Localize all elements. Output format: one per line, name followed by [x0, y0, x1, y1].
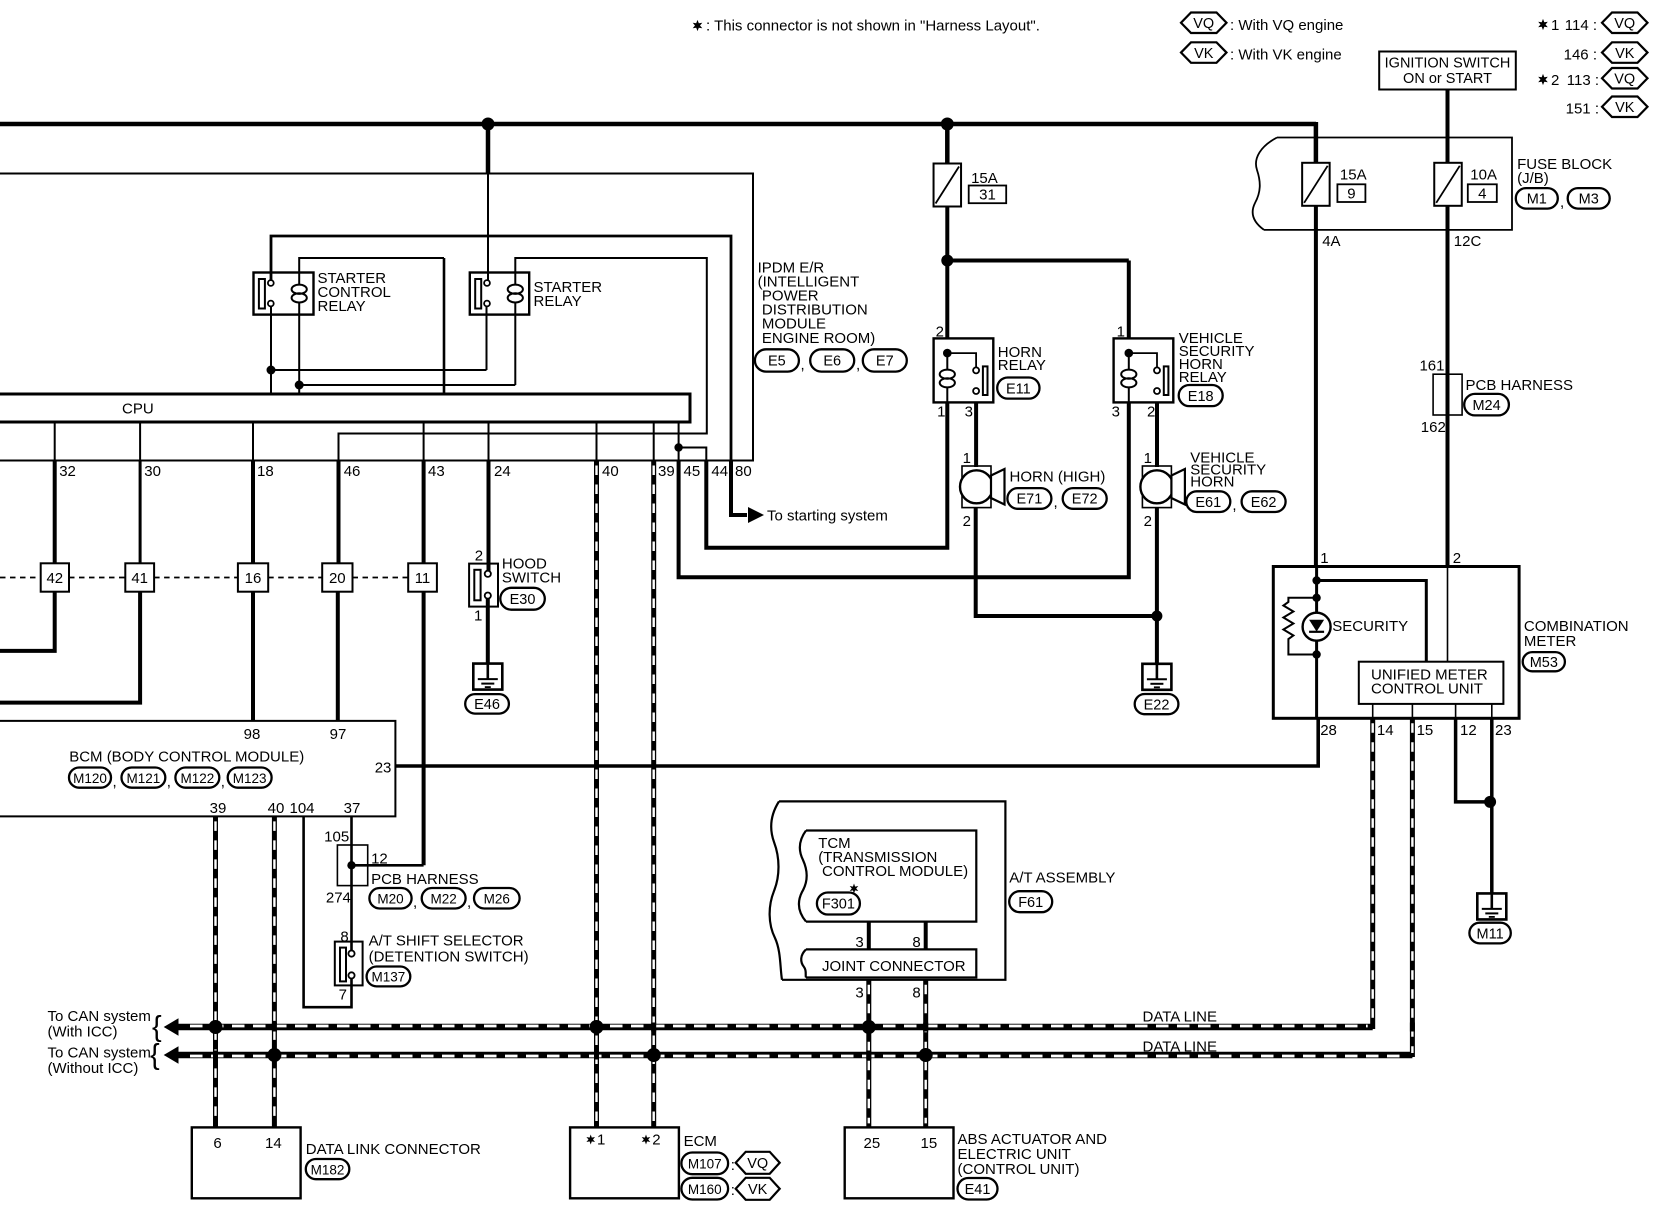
- node: security lamp top junction: [1312, 594, 1320, 602]
- VK hexagon: [736, 1178, 780, 1200]
- wire: pin 45 to veh sec horn relay pin 3: [679, 403, 1129, 578]
- svg-text:46: 46: [344, 463, 361, 480]
- wire: battery bus: [0, 122, 1316, 127]
- svg-text:METER: METER: [1524, 633, 1577, 650]
- svg-text:VQ: VQ: [747, 1156, 768, 1172]
- svg-text:M160: M160: [688, 1182, 722, 1197]
- svg-text:6: 6: [213, 1135, 221, 1152]
- ECM pin *1: [586, 1135, 595, 1145]
- svg-text:: With VK engine: : With VK engine: [1230, 47, 1342, 64]
- wire: fuse 31 to horn relay pin 2: [945, 207, 949, 339]
- connector M20: [369, 888, 411, 909]
- svg-text:42: 42: [46, 570, 63, 587]
- svg-text:1: 1: [1320, 550, 1328, 567]
- svg-text:(With ICC): (With ICC): [48, 1024, 118, 1041]
- svg-text:JOINT CONNECTOR: JOINT CONNECTOR: [822, 958, 966, 975]
- BCM box: [0, 721, 395, 817]
- connector M26: [474, 888, 520, 909]
- svg-text:105: 105: [324, 829, 349, 846]
- wire: PCB harness 12 to terminal 11: [352, 864, 424, 867]
- svg-text:{: {: [150, 1039, 160, 1071]
- svg-text:3: 3: [965, 403, 973, 420]
- svg-text:VK: VK: [1615, 100, 1635, 116]
- svg-text:39: 39: [658, 463, 675, 480]
- node: meter ground junction: [1484, 796, 1496, 808]
- svg-text:E72: E72: [1072, 492, 1098, 508]
- node: bus junction A: [482, 118, 495, 131]
- svg-text:F61: F61: [1018, 895, 1043, 911]
- note *2 113:VQ: [1538, 74, 1548, 85]
- svg-text:15: 15: [921, 1135, 938, 1152]
- connector E41: [958, 1178, 998, 1200]
- svg-text:BCM (BODY CONTROL MODULE): BCM (BODY CONTROL MODULE): [69, 748, 304, 765]
- wire: VSH relay pin 2 to security horn: [1155, 403, 1159, 468]
- node: security lamp bottom junction: [1312, 650, 1320, 658]
- svg-text:SECURITY: SECURITY: [1332, 618, 1408, 635]
- svg-text:,: ,: [1232, 497, 1236, 514]
- connector M22: [422, 888, 466, 909]
- svg-text:15A: 15A: [1340, 166, 1367, 183]
- svg-text:M3: M3: [1579, 192, 1599, 208]
- svg-text:161: 161: [1419, 357, 1444, 374]
- svg-text:HORN (HIGH): HORN (HIGH): [1010, 469, 1106, 486]
- svg-text:M1: M1: [1527, 192, 1547, 208]
- svg-text:DATA LINK CONNECTOR: DATA LINK CONNECTOR: [306, 1141, 481, 1158]
- svg-text:1: 1: [963, 450, 971, 467]
- wire: meter pin 28 to BCM 23 wire: [1316, 718, 1320, 767]
- wire: pin 39 CAN-L to ECM *2: [651, 461, 656, 1128]
- svg-text:VK: VK: [1194, 46, 1214, 62]
- wire: starter control relay coil top to CPU: [299, 258, 444, 273]
- ground E46: [473, 664, 502, 690]
- svg-text:12: 12: [1460, 722, 1477, 739]
- svg-text:RELAY: RELAY: [318, 298, 366, 315]
- wire: CPU pin stub 40: [596, 422, 598, 461]
- UMCU pin stubs: [1372, 704, 1374, 718]
- svg-text:RELAY: RELAY: [534, 293, 582, 310]
- svg-text:E71: E71: [1016, 492, 1042, 508]
- node: CAN2 x IPDM39: [647, 1048, 661, 1062]
- svg-text:,: ,: [1054, 494, 1058, 511]
- wire: starter relay coil to IPDM pin 46 route: [339, 258, 707, 461]
- A/T shift selector detention switch M137: [335, 942, 363, 986]
- svg-text:,: ,: [167, 774, 171, 791]
- connector M53: [1523, 652, 1565, 671]
- svg-text:M121: M121: [127, 771, 161, 786]
- legend VK symbol: [1181, 42, 1227, 63]
- svg-text:162: 162: [1421, 419, 1446, 436]
- wire: CPU pin stub 32: [54, 422, 56, 461]
- fuse 15A/31: [934, 164, 962, 207]
- svg-text::: :: [731, 1157, 735, 1174]
- svg-text:IGNITION SWITCH: IGNITION SWITCH: [1385, 56, 1511, 72]
- connector M121: [122, 768, 166, 788]
- VQ hexagon: [736, 1152, 780, 1174]
- wire: starter control relay contact to pin 80 route: [271, 236, 731, 461]
- svg-text:VQ: VQ: [1193, 16, 1214, 32]
- svg-text:2: 2: [1147, 403, 1155, 420]
- svg-text:31: 31: [979, 187, 996, 204]
- svg-text:M120: M120: [73, 771, 107, 786]
- svg-text:VK: VK: [748, 1182, 768, 1198]
- svg-text:DATA LINE: DATA LINE: [1143, 1009, 1217, 1026]
- svg-text:2: 2: [1551, 72, 1559, 89]
- wire: horn feed to veh sec horn relay pin 1: [945, 259, 1129, 263]
- svg-text:1: 1: [474, 608, 482, 625]
- svg-text:M137: M137: [372, 970, 406, 985]
- connector M1: [1516, 188, 1558, 209]
- svg-text:A/T SHIFT SELECTOR: A/T SHIFT SELECTOR: [369, 933, 524, 950]
- connector E72: [1063, 488, 1107, 509]
- node: SCR coil junction: [295, 381, 304, 390]
- svg-text:E18: E18: [1188, 389, 1214, 405]
- fuse 10A/4: [1434, 163, 1462, 206]
- svg-text:2: 2: [963, 513, 971, 530]
- svg-text:12C: 12C: [1454, 233, 1482, 250]
- svg-text:274: 274: [326, 889, 351, 906]
- note: connector not shown in Harness Layout: [693, 20, 703, 31]
- svg-text:14: 14: [265, 1135, 282, 1152]
- svg-text:37: 37: [344, 800, 361, 817]
- connector M122: [175, 768, 219, 788]
- data link connector box M182: [192, 1127, 301, 1198]
- connector E62: [1242, 491, 1286, 512]
- svg-text:2: 2: [1144, 513, 1152, 530]
- connector M182: [306, 1159, 350, 1179]
- ground E22: [1142, 664, 1171, 690]
- svg-text:16: 16: [245, 570, 262, 587]
- svg-text:151 :: 151 :: [1566, 101, 1599, 118]
- wire: pin 44 to horn relay pin 1: [706, 403, 947, 548]
- wire: pin 18 drop: [251, 461, 255, 564]
- svg-text:114 :: 114 :: [1565, 17, 1597, 34]
- svg-text:VK: VK: [1615, 46, 1635, 62]
- wire: terminal 42 exit left: [0, 592, 55, 651]
- svg-text:23: 23: [375, 760, 392, 777]
- relay K2 starter relay: [470, 273, 529, 315]
- svg-text:E22: E22: [1144, 697, 1170, 713]
- fuse 15A/9: [1302, 163, 1330, 206]
- wire crossing restore: [272, 1023, 277, 1032]
- svg-text:1: 1: [1551, 17, 1559, 34]
- node: pin45/44 junction: [674, 443, 682, 451]
- node: SCR contact junction: [267, 366, 276, 375]
- PCB harness connector box: [337, 845, 367, 886]
- svg-text:To CAN system: To CAN system: [48, 1045, 151, 1062]
- svg-text:3: 3: [1112, 403, 1120, 420]
- security indicator LED: [1303, 613, 1331, 641]
- svg-text:3: 3: [855, 985, 863, 1002]
- node: CAN1 x IPDM40: [590, 1020, 604, 1034]
- connector E6: [810, 349, 854, 371]
- relay K1 starter control relay: [254, 273, 314, 315]
- svg-text:(Without ICC): (Without ICC): [48, 1060, 139, 1077]
- connector M120: [69, 768, 111, 788]
- connector M3: [1568, 188, 1610, 209]
- wire: BCM 37 to PCB harness 105: [350, 816, 353, 950]
- svg-text:,: ,: [113, 774, 117, 791]
- svg-text:24: 24: [494, 463, 511, 480]
- combination meter box M53: [1273, 567, 1519, 719]
- svg-text:CPU: CPU: [122, 401, 154, 418]
- svg-text:E41: E41: [965, 1182, 991, 1198]
- wire: terminal 41 exit left: [0, 592, 140, 703]
- svg-text:41: 41: [131, 570, 148, 587]
- svg-text:30: 30: [144, 463, 161, 480]
- svg-text:M11: M11: [1477, 926, 1504, 942]
- CAN line 2 (Without ICC): [164, 1046, 179, 1064]
- connector F301: [817, 893, 860, 915]
- relay K4 vehicle security horn relay E18: [1114, 338, 1174, 402]
- wire: meter pin 23 to ground M11: [1490, 718, 1494, 893]
- svg-text:43: 43: [428, 463, 445, 480]
- svg-text:12: 12: [371, 851, 388, 868]
- wire: horn relay pin 3 to horn: [974, 403, 978, 468]
- svg-text:9: 9: [1347, 186, 1355, 203]
- svg-text:104: 104: [289, 800, 314, 817]
- svg-text:45: 45: [684, 463, 701, 480]
- node: CAN1 x BCM39: [209, 1020, 223, 1034]
- wire: BCM 104 to detention switch 7: [304, 816, 352, 1007]
- wire: hood switch to ground: [486, 599, 490, 664]
- svg-text:ENGINE ROOM): ENGINE ROOM): [762, 330, 875, 347]
- legend VQ symbol: [1181, 13, 1227, 34]
- svg-text:HORN: HORN: [1190, 474, 1234, 491]
- svg-text:1: 1: [937, 403, 945, 420]
- terminal box 20: [322, 563, 352, 591]
- svg-text:To CAN system: To CAN system: [48, 1008, 151, 1025]
- wire: bus drop to starter relay: [486, 121, 491, 174]
- node: meter junction 1: [1312, 576, 1320, 584]
- wire: CPU pin stub 30: [139, 422, 141, 461]
- svg-text:2: 2: [652, 1132, 660, 1149]
- svg-text:M123: M123: [233, 771, 267, 786]
- wire: BCM 23 to meter pin 28: [395, 718, 1318, 766]
- connector E5: [755, 349, 799, 371]
- svg-text:14: 14: [1377, 722, 1394, 739]
- CPU box: [0, 394, 690, 422]
- connector E71: [1007, 488, 1051, 509]
- svg-text:(CONTROL UNIT): (CONTROL UNIT): [958, 1161, 1080, 1178]
- resistor R1: [1283, 598, 1316, 655]
- node: CAN1 x TCM3: [862, 1020, 876, 1034]
- svg-text:98: 98: [244, 726, 261, 743]
- node: horn ground junction: [1151, 611, 1162, 622]
- svg-text:M107: M107: [688, 1157, 722, 1172]
- wire: pin 80 to starting system: [731, 461, 747, 516]
- svg-text:20: 20: [329, 570, 346, 587]
- svg-text:M122: M122: [180, 771, 214, 786]
- svg-text:4: 4: [1478, 186, 1486, 203]
- wire: BCM 40 CAN to data link connector 14: [272, 816, 277, 1127]
- svg-text:M24: M24: [1472, 398, 1500, 414]
- wire: TCM pin 3 to joint connector: [867, 922, 871, 950]
- svg-text:23: 23: [1495, 722, 1512, 739]
- node: CAN2 x BCM40: [267, 1048, 281, 1062]
- terminal box 16: [238, 563, 268, 591]
- svg-text:F301: F301: [822, 897, 855, 913]
- svg-text:DATA LINE: DATA LINE: [1143, 1039, 1217, 1056]
- svg-text:VQ: VQ: [1614, 16, 1635, 32]
- connector E61: [1186, 491, 1230, 512]
- svg-text:(J/B): (J/B): [1517, 170, 1549, 187]
- wire: pin 30 drop: [139, 461, 142, 564]
- svg-text:80: 80: [735, 463, 752, 480]
- wire: terminal 20 to BCM 97: [336, 592, 340, 721]
- ground M11: [1477, 893, 1506, 919]
- joint connector box: [806, 949, 976, 977]
- connector M107: [681, 1153, 728, 1175]
- svg-text:E61: E61: [1195, 495, 1221, 511]
- svg-text:M26: M26: [484, 891, 510, 906]
- svg-text:E5: E5: [768, 354, 786, 370]
- TCM box F301: [806, 831, 976, 922]
- svg-text:,: ,: [1560, 194, 1564, 211]
- wire: CAN line 1 riser to meter pin 14: [1370, 718, 1375, 1029]
- svg-text:11: 11: [415, 570, 431, 587]
- wire: ignition switch to fuse 4: [1446, 90, 1450, 164]
- svg-text:E11: E11: [1006, 381, 1031, 397]
- wire: branch to pin 44: [679, 448, 707, 461]
- svg-text:(DETENTION SWITCH): (DETENTION SWITCH): [369, 949, 529, 966]
- wire: CPU pin stub 45: [678, 422, 680, 461]
- svg-text:44: 44: [711, 463, 728, 480]
- wire: CPU pin stub 24: [488, 422, 490, 461]
- wire: horn pin 2 to ground junction: [976, 508, 1157, 616]
- svg-text:,: ,: [221, 774, 225, 791]
- svg-text:SWITCH: SWITCH: [502, 569, 561, 586]
- svg-text:,: ,: [856, 357, 860, 374]
- A/T assembly box F61: [779, 801, 1005, 979]
- svg-text:M53: M53: [1530, 655, 1558, 671]
- svg-text:146 :: 146 :: [1564, 47, 1597, 64]
- wire: security horn to ground E22: [1155, 508, 1159, 664]
- svg-text:PCB HARNESS: PCB HARNESS: [371, 871, 479, 888]
- ECM box: [570, 1127, 679, 1198]
- svg-text:40: 40: [268, 800, 285, 817]
- svg-text:E62: E62: [1251, 495, 1277, 511]
- relay K3 horn relay E11: [934, 338, 994, 402]
- node: CAN2 x TCM8: [919, 1048, 933, 1062]
- horn (high) E71/E72: [962, 466, 991, 508]
- svg-text:1: 1: [1144, 450, 1152, 467]
- ABS actuator box E41: [845, 1127, 954, 1198]
- connector E11: [997, 378, 1039, 399]
- wire: to unified meter control unit: [1317, 581, 1427, 662]
- wire: pin 43 drop: [422, 461, 426, 564]
- wire: terminal 11 to PCB harness 12: [422, 592, 426, 866]
- svg-text:2: 2: [1453, 550, 1461, 567]
- svg-text:ON or START: ON or START: [1403, 71, 1492, 87]
- svg-text:18: 18: [257, 463, 274, 480]
- svg-text:E7: E7: [876, 354, 894, 370]
- terminal box 11: [408, 563, 437, 591]
- wire: pin 32 drop: [53, 461, 57, 564]
- svg-text:40: 40: [602, 463, 619, 480]
- wire: BCM 39 CAN to data link connector 6: [213, 816, 218, 1127]
- svg-text:To starting system: To starting system: [767, 507, 888, 524]
- svg-text:RELAY: RELAY: [998, 357, 1046, 374]
- ignition switch ON or START: [1379, 52, 1516, 90]
- svg-text::: :: [731, 1182, 735, 1199]
- wire: joint connector 3 to CAN1 and ABS 25: [866, 980, 871, 1128]
- ECM pin *2: [642, 1135, 651, 1145]
- svg-text:2: 2: [475, 548, 483, 565]
- svg-text:PCB HARNESS: PCB HARNESS: [1466, 377, 1574, 394]
- svg-text:CONTROL MODULE): CONTROL MODULE): [822, 863, 968, 880]
- svg-text:M22: M22: [431, 891, 457, 906]
- IPDM E/R box: [0, 174, 753, 461]
- connector M123: [228, 768, 272, 788]
- wire: meter pin 12 to ground junction: [1456, 718, 1491, 802]
- fuse block (J/B) box: [1264, 138, 1512, 230]
- svg-text:15: 15: [1417, 722, 1434, 739]
- wire: terminal 16 to BCM 98: [251, 592, 255, 721]
- svg-text:4A: 4A: [1322, 233, 1340, 250]
- svg-text:32: 32: [59, 463, 76, 480]
- svg-text:,: ,: [801, 357, 805, 374]
- svg-text:1: 1: [597, 1132, 605, 1149]
- wire: meter pin 2 internal: [1447, 567, 1449, 662]
- wire: SCR coil bottom to CPU: [298, 315, 300, 394]
- terminal box 41: [125, 563, 154, 591]
- svg-text:113 :: 113 :: [1567, 72, 1599, 89]
- svg-text:CONTROL UNIT: CONTROL UNIT: [1371, 680, 1483, 697]
- wire: CPU pin stub 39: [653, 422, 655, 461]
- connector E7: [863, 349, 907, 371]
- svg-text:97: 97: [330, 726, 347, 743]
- note *1 114:VQ: [1538, 19, 1548, 30]
- svg-text:: This connector is not shown: : This connector is not shown in "Harnes…: [706, 18, 1040, 35]
- svg-text:ECM: ECM: [684, 1133, 717, 1150]
- wire: bus drop to fuse 31: [945, 121, 950, 164]
- svg-text:10A: 10A: [1470, 166, 1497, 183]
- svg-text:,: ,: [413, 894, 417, 911]
- svg-text:E30: E30: [510, 592, 536, 608]
- wire: joint connector 8 to CAN2 and ABS 15: [923, 980, 928, 1128]
- wire: TCM pin 8 to joint connector: [924, 922, 928, 950]
- svg-text:8: 8: [912, 985, 920, 1002]
- svg-text:RELAY: RELAY: [1179, 369, 1227, 386]
- svg-text:28: 28: [1320, 722, 1337, 739]
- terminal box 42: [41, 563, 69, 591]
- node: PCB harness junction: [347, 861, 355, 869]
- svg-text:25: 25: [864, 1135, 881, 1152]
- connector row dashed line: [0, 577, 41, 579]
- wire: CAN line 2 riser to meter pin 15: [1410, 718, 1415, 1057]
- svg-text:8: 8: [340, 929, 348, 946]
- wire: CPU pin stub 18: [252, 422, 254, 461]
- svg-text:VQ: VQ: [1614, 71, 1635, 87]
- wire: pin 24 drop to hood switch: [487, 461, 491, 572]
- wire: fuse 9 output 4A to combination meter pin 1: [1314, 206, 1318, 567]
- CAN line 1 (With ICC): [164, 1018, 179, 1036]
- wire: meter pin 1 internal: [1315, 567, 1318, 719]
- svg-text:E6: E6: [823, 354, 841, 370]
- svg-text:,: ,: [467, 894, 471, 911]
- svg-text:E46: E46: [474, 697, 500, 713]
- node: bus junction B: [941, 118, 954, 131]
- wire: starter control relay pin to starter relay pin: [270, 307, 272, 395]
- wire: bus drop into fuse 9: [1314, 122, 1319, 163]
- wire: fuse 4 output 12C to meter pin 2: [1446, 206, 1450, 567]
- wire: pin 46 drop: [337, 461, 341, 564]
- vehicle security horn E61/E62: [1142, 466, 1171, 508]
- svg-text:7: 7: [339, 986, 347, 1003]
- connector F61: [1009, 891, 1052, 912]
- unified meter control unit box: [1359, 662, 1504, 704]
- svg-text:39: 39: [210, 800, 227, 817]
